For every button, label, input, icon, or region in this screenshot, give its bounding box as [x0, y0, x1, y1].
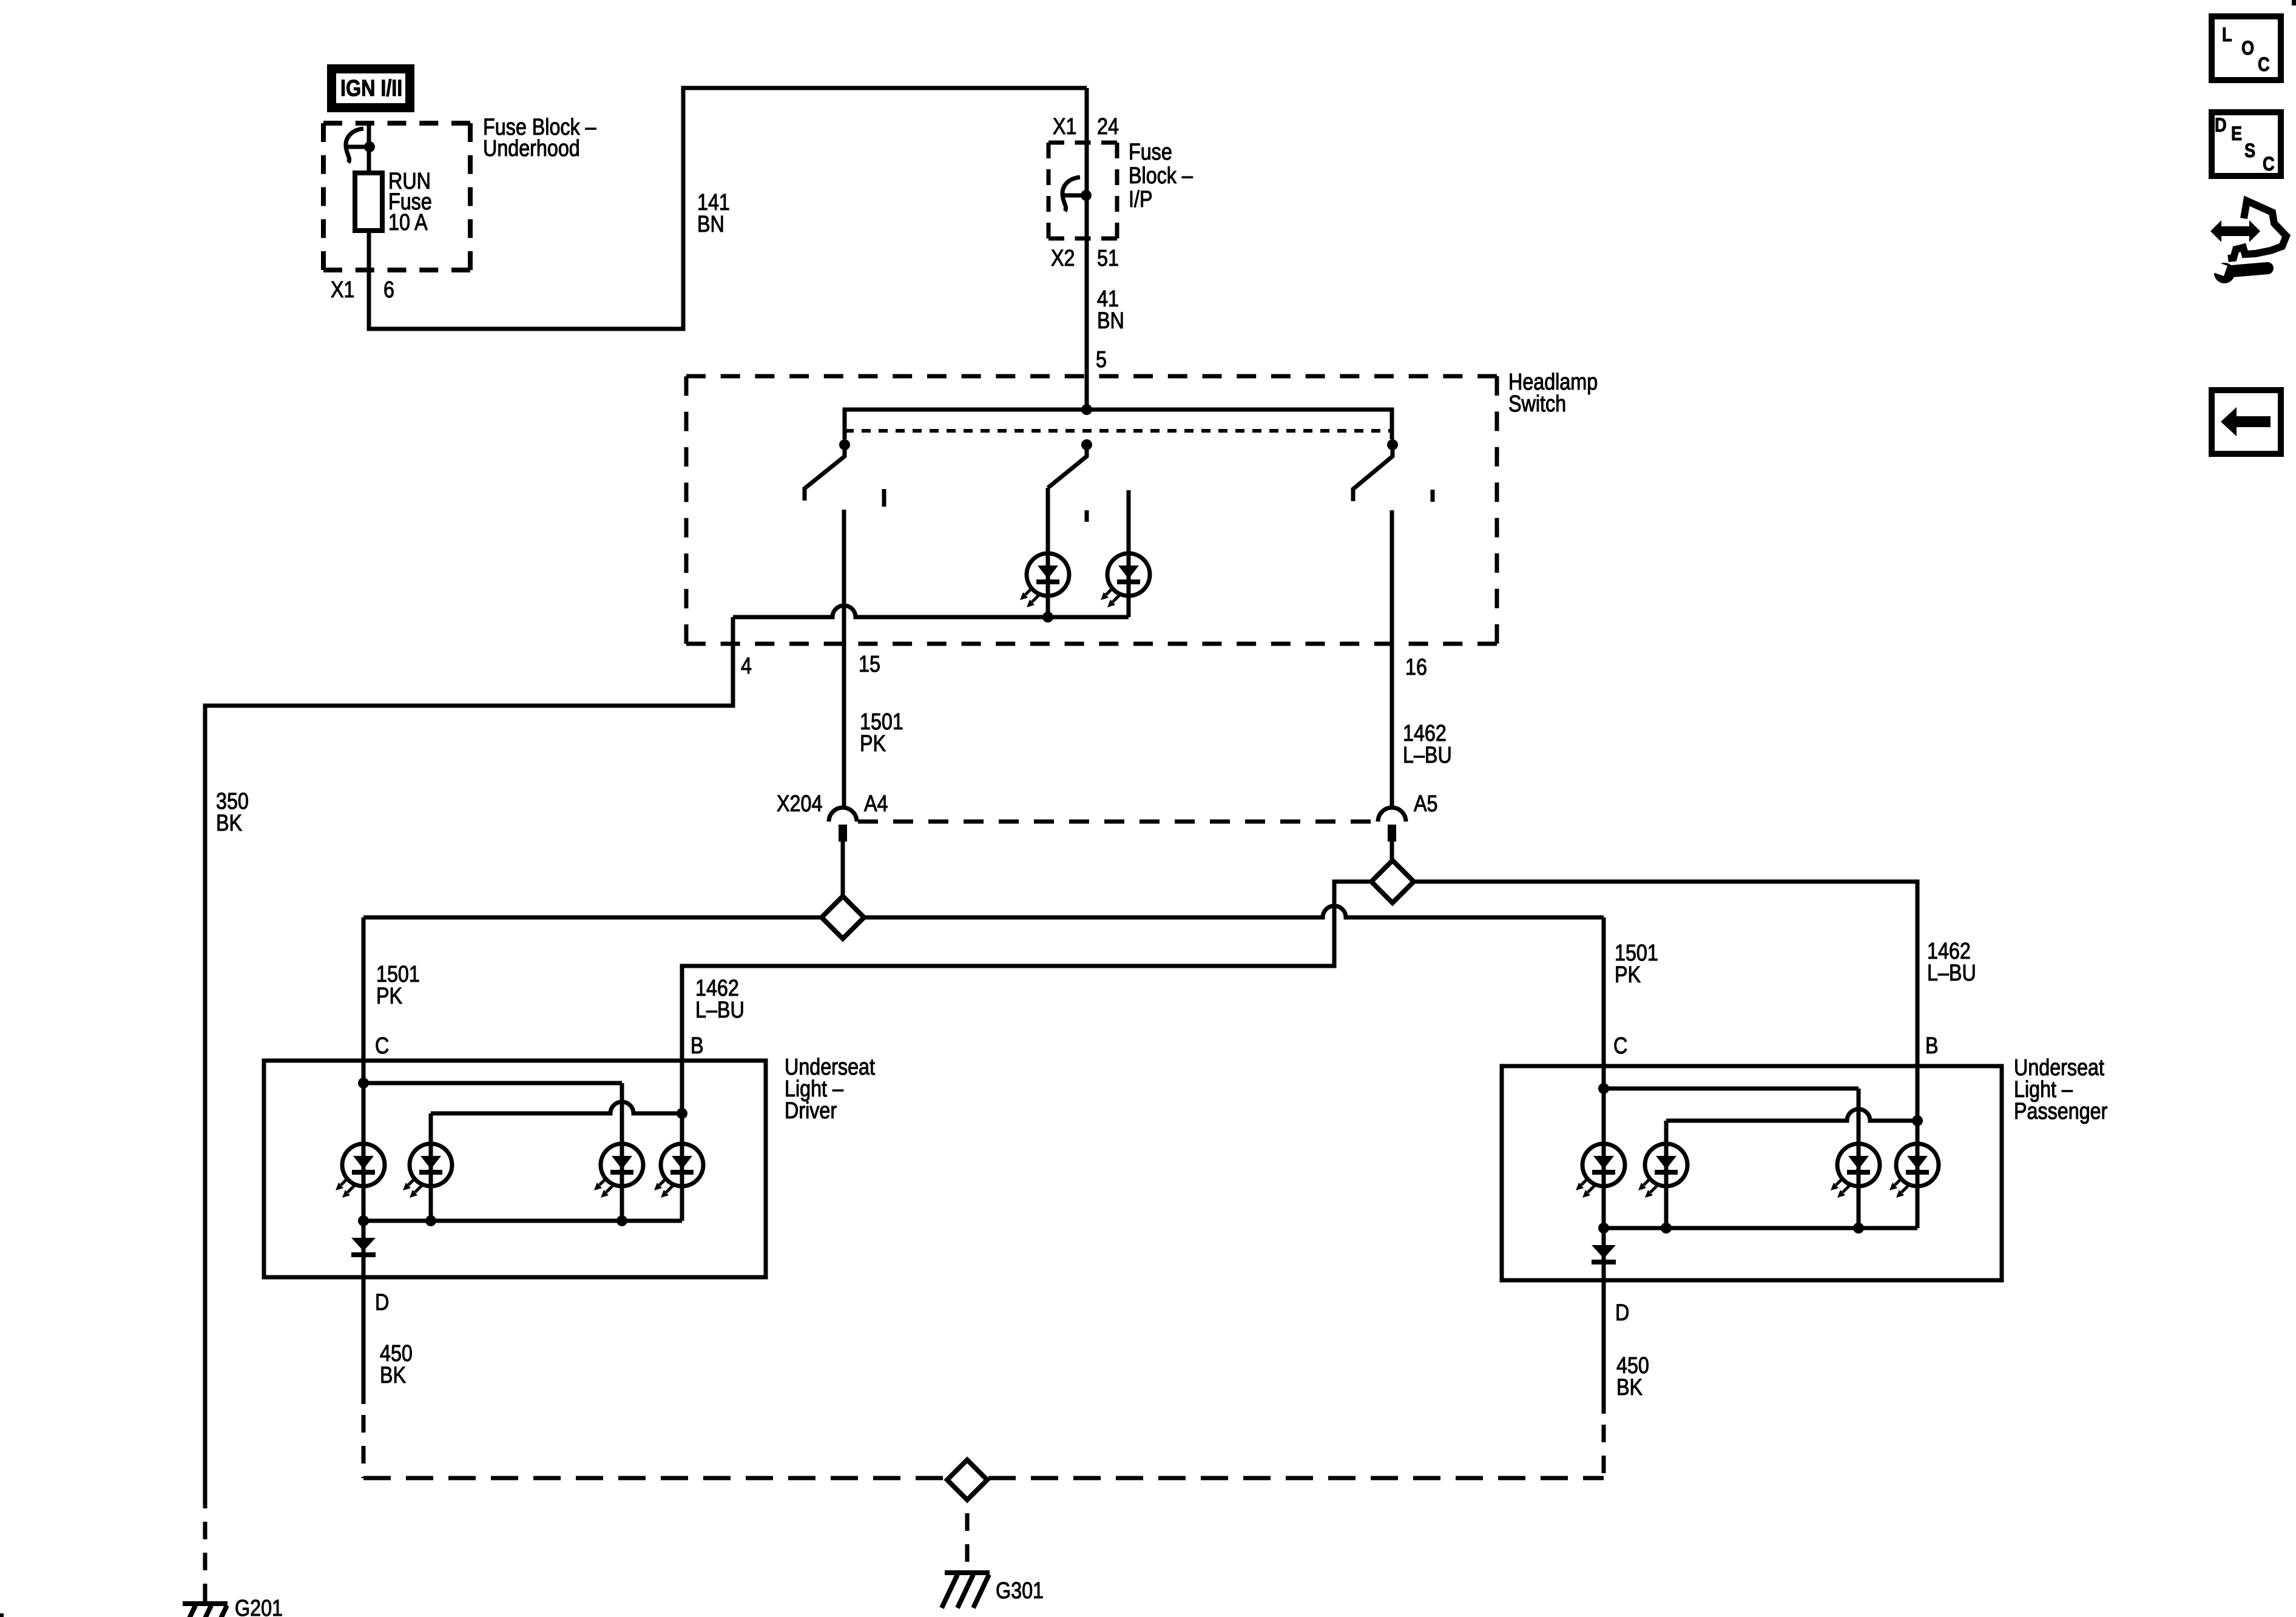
- switch 3 fixed contact: [1431, 490, 1435, 502]
- svg-text:X204: X204: [777, 791, 822, 817]
- ground G201: [180, 1604, 228, 1617]
- passenger LED 2: [1638, 1144, 1687, 1198]
- passenger wire 450 BK label: [1616, 1353, 1649, 1379]
- svg-text:BK: BK: [216, 811, 243, 836]
- driver pin D label: [375, 1290, 389, 1315]
- passenger 450 BK dashed segment: [1602, 1414, 1606, 1478]
- driver LED 2: [403, 1144, 452, 1198]
- svg-text:X1: X1: [331, 277, 354, 303]
- label Headlamp Switch: [1508, 370, 1598, 395]
- svg-text:C: C: [2258, 54, 2270, 76]
- wire A5 to splice S2: [1390, 842, 1394, 860]
- label Underseat Light - Passenger: [2014, 1055, 2104, 1081]
- underseat light driver box: [264, 1061, 766, 1277]
- pin 4 label: [741, 653, 752, 679]
- feed hook terminal in I/P block: [1062, 177, 1092, 211]
- svg-text:PK: PK: [860, 731, 886, 757]
- driver pin B label: [690, 1033, 704, 1059]
- svg-text:Block –: Block –: [1129, 163, 1193, 189]
- passenger LED verticals: [1604, 1089, 1917, 1228]
- splice S1 on 1501 PK: [822, 896, 864, 939]
- wire from IGN feed to fuse: [367, 123, 371, 173]
- svg-text:BK: BK: [380, 1363, 407, 1388]
- passenger pin B label: [1925, 1033, 1939, 1059]
- svg-text:15: 15: [859, 652, 880, 677]
- switch 1 fixed contact: [882, 489, 886, 507]
- switch 2 fixed contact: [1085, 510, 1089, 522]
- label Fuse Block - I/P: [1129, 140, 1172, 165]
- svg-text:G201: G201: [235, 1596, 283, 1617]
- sidebar LOC button: [2212, 16, 2281, 80]
- svg-text:C: C: [375, 1033, 389, 1059]
- pin X2 51 of fuse block I/P: [1051, 246, 1075, 271]
- pin 5 of headlamp switch: [1096, 347, 1107, 373]
- wire switch2 to indicator LED 1: [1046, 488, 1050, 596]
- switch 1 blade: [805, 448, 845, 501]
- svg-text:BK: BK: [1616, 1375, 1643, 1400]
- driver LED 3: [594, 1144, 643, 1198]
- connector terminal A4: [829, 808, 857, 842]
- internal bus with hop over wire 15: [733, 606, 1129, 617]
- svg-text:L–BU: L–BU: [1403, 743, 1452, 768]
- wire 41 BN: [1097, 286, 1119, 312]
- wire 1501 PK down to passenger light pin C: [1602, 917, 1606, 1089]
- fuse block I/P dashed box: [1048, 143, 1117, 238]
- passenger pin C label: [1613, 1033, 1627, 1059]
- switch 3 blade: [1353, 448, 1393, 501]
- wire through I/P block down to headlamp switch: [1085, 88, 1089, 410]
- passenger internal bus 2 with hop: [1666, 1109, 1917, 1121]
- svg-text:Passenger: Passenger: [2014, 1099, 2108, 1124]
- junction LED1 on internal bus: [1042, 612, 1053, 623]
- junctions on driver cathode bus: [358, 1215, 369, 1226]
- svg-text:4: 4: [741, 653, 752, 679]
- page corner mark bottom left: [0, 1613, 4, 1617]
- junction bus2 on wire B: [677, 1108, 687, 1119]
- switch 2 (illumination) common node: [1081, 439, 1092, 450]
- wire 1462 L-BU from splice S2 to driver light: [682, 882, 1371, 1113]
- junction at passenger pin C: [1598, 1083, 1609, 1094]
- mechanical coupling dotted line: [845, 429, 1392, 433]
- fuse block underhood dashed box: [323, 123, 470, 270]
- driver series diode: [351, 1238, 376, 1257]
- svg-text:24: 24: [1097, 114, 1119, 140]
- driver 1462 L-BU label: [695, 976, 739, 1001]
- svg-text:Driver: Driver: [785, 1098, 837, 1124]
- svg-text:10 A: 10 A: [388, 210, 428, 235]
- switch common bar: [845, 410, 1392, 439]
- wire 1462 L-BU from pin 16 to connector A5: [1390, 510, 1394, 808]
- wire 1501 PK down to driver light pin C: [362, 917, 366, 1083]
- junction bus2 on passenger wire B: [1912, 1115, 1923, 1126]
- splice S3 to ground: [947, 1460, 987, 1500]
- svg-text:A4: A4: [864, 791, 888, 817]
- svg-text:E: E: [2231, 123, 2242, 145]
- passenger LED 1: [1576, 1144, 1625, 1198]
- switch 3 (dome lamps) common node: [1387, 439, 1398, 450]
- headlamp switch dashed box: [686, 376, 1497, 644]
- fuse RUN 10 A: [355, 173, 382, 231]
- pin X1 24 of fuse block I/P: [1053, 114, 1076, 140]
- svg-text:S: S: [2244, 140, 2255, 162]
- svg-text:D: D: [375, 1290, 389, 1315]
- battery feed hook terminal: [346, 129, 375, 163]
- svg-text:Switch: Switch: [1508, 391, 1566, 417]
- sidebar wrench-arrow icon: [2208, 201, 2286, 283]
- svg-text:D: D: [1615, 1300, 1629, 1326]
- passenger 1501 PK label: [1615, 940, 1658, 966]
- driver 1501 PK label: [376, 962, 420, 987]
- label Underseat Light - Driver: [785, 1055, 875, 1080]
- wire to indicator LED 2: [1127, 490, 1131, 596]
- svg-text:G301: G301: [996, 1578, 1044, 1604]
- svg-text:I/P: I/P: [1129, 187, 1152, 212]
- svg-text:C: C: [2263, 154, 2275, 175]
- driver wire 450 BK label: [380, 1341, 413, 1366]
- underseat light passenger box: [1502, 1066, 2002, 1280]
- LED lower verticals to internal bus: [1048, 596, 1129, 617]
- svg-text:Underhood: Underhood: [483, 136, 580, 161]
- junction at driver pin C: [358, 1078, 369, 1089]
- svg-text:B: B: [1925, 1033, 1939, 1059]
- switch 1 (park lamps) common node: [839, 439, 850, 450]
- indicator LED 2 in switch: [1101, 553, 1150, 607]
- svg-text:B: B: [690, 1033, 704, 1059]
- svg-text:A5: A5: [1414, 791, 1437, 817]
- dashed 450 BK ground bus: [363, 1476, 1604, 1480]
- label Fuse Block - Underhood: [483, 115, 596, 140]
- wire 1462 L-BU from splice S2 to passenger light: [1414, 882, 1917, 1121]
- passenger series diode: [1592, 1245, 1616, 1264]
- sidebar DESC button: [2212, 112, 2281, 176]
- wire 350 BK dashed tail to G201: [203, 1508, 208, 1602]
- svg-text:C: C: [1613, 1033, 1627, 1059]
- ground G301: [942, 1573, 990, 1608]
- connector terminal A5: [1378, 808, 1406, 842]
- connector X204 dashed line: [858, 820, 1377, 824]
- svg-text:PK: PK: [376, 984, 403, 1009]
- wire 141 BN from fuse to fuse block I/P: [369, 88, 1087, 329]
- pin 15 label: [859, 652, 880, 677]
- svg-text:PK: PK: [1615, 962, 1641, 988]
- power feed box IGN I/II: [327, 64, 414, 112]
- svg-text:BN: BN: [1097, 308, 1124, 334]
- driver internal bus 2 with hop: [431, 1102, 682, 1113]
- svg-text:51: 51: [1097, 246, 1119, 271]
- svg-text:X1: X1: [1053, 114, 1076, 140]
- svg-text:Fuse: Fuse: [1129, 140, 1172, 165]
- svg-text:L: L: [2222, 24, 2232, 46]
- driver cathode bus: [363, 1219, 682, 1223]
- svg-text:5: 5: [1096, 347, 1107, 373]
- sidebar back-arrow button: [2212, 390, 2281, 454]
- svg-text:L–BU: L–BU: [1927, 960, 1976, 986]
- driver LED 4: [654, 1144, 703, 1198]
- driver LED verticals: [363, 1083, 682, 1221]
- wire A4 to splice S1: [841, 842, 845, 896]
- pin 16 label: [1405, 655, 1427, 680]
- wire 350 BK label: [216, 789, 249, 814]
- passenger pin D wire: [1602, 1228, 1606, 1414]
- driver internal feed bus from pin C: [363, 1081, 622, 1085]
- wire 1501 PK bus from splice S1 with hop at x2199: [363, 906, 1604, 917]
- pin X1 6 of underhood block: [331, 277, 354, 303]
- junction of wire 5 with bar: [1081, 404, 1092, 415]
- passenger pin D label: [1615, 1300, 1629, 1326]
- svg-text:BN: BN: [697, 212, 724, 237]
- page corner mark top right: [2292, 0, 2296, 5]
- junctions on passenger cathode bus: [1598, 1223, 1609, 1234]
- svg-text:X2: X2: [1051, 246, 1075, 271]
- splice S2 on 1462 L-BU: [1371, 860, 1414, 903]
- passenger LED 4: [1889, 1144, 1939, 1198]
- svg-text:O: O: [2241, 38, 2254, 59]
- driver 450 BK dashed segment: [362, 1404, 366, 1478]
- svg-text:D: D: [2215, 115, 2227, 137]
- svg-text:IGN I/II: IGN I/II: [340, 76, 402, 101]
- driver pin D wire: [362, 1221, 366, 1404]
- svg-text:L–BU: L–BU: [695, 998, 745, 1023]
- driver LED 1: [336, 1144, 385, 1198]
- passenger internal feed bus from pin C: [1604, 1087, 1859, 1091]
- passenger cathode bus: [1604, 1226, 1917, 1230]
- passenger LED 3: [1831, 1144, 1880, 1198]
- wire 1501 PK from pin 15 to connector A4: [842, 510, 846, 808]
- passenger 1462 L-BU label: [1927, 939, 1971, 964]
- svg-text:6: 6: [383, 277, 394, 303]
- svg-text:16: 16: [1405, 655, 1427, 680]
- connector X204 labels: [777, 791, 822, 817]
- driver pin C label: [375, 1033, 389, 1059]
- switch 2 blade: [1048, 448, 1087, 488]
- indicator LED 1 in switch: [1020, 553, 1069, 607]
- dashed drop to G301: [965, 1500, 970, 1570]
- pin 4 wire to 350 BK: [205, 617, 733, 1508]
